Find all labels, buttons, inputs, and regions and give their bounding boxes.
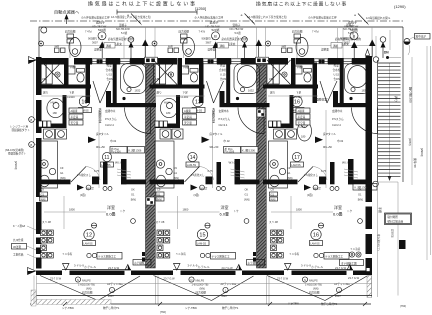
svg-text:23-7 G.W: 23-7 G.W	[222, 266, 234, 270]
svg-text:物干し竿付TS: 物干し竿付TS	[321, 302, 338, 306]
toilet	[190, 69, 198, 83]
svg-text:(N6-0.8)(見本限): (N6-0.8)(見本限)	[5, 148, 24, 152]
svg-text:換気扇はこれ以上下に設置しない事: 換気扇はこれ以上下に設置しない事	[88, 1, 197, 8]
svg-text:ミニ争有: ミニ争有	[176, 252, 187, 256]
svg-text:告DS: 告DS	[220, 77, 226, 81]
svg-text:W.I.C: W.I.C	[229, 161, 237, 165]
svg-text:[2303]: [2303]	[14, 161, 18, 170]
svg-text:3-ドル-9: 3-ドル-9	[74, 264, 84, 268]
svg-text:テラス囲施工エ: テラス囲施工エ	[212, 255, 231, 259]
svg-text:C9: C9	[174, 166, 178, 170]
svg-text:(NN): (NN)	[60, 176, 66, 180]
wall right of WC	[313, 63, 318, 104]
svg-text:[760]: [760]	[160, 310, 166, 314]
svg-text:C9: C9	[271, 188, 275, 192]
living divider wall	[150, 180, 185, 185]
svg-text:[NN]: [NN]	[40, 197, 45, 201]
svg-text:(3畳): (3畳)	[80, 193, 86, 197]
small box row	[39, 121, 51, 127]
small boxed labels	[69, 108, 83, 125]
svg-text:合水栓: 合水栓	[106, 68, 114, 72]
svg-text:2607: 2607	[222, 294, 228, 298]
svg-text:通絡: 通絡	[333, 44, 339, 48]
svg-text:四方枠棚: 四方枠棚	[179, 30, 190, 34]
svg-text:N: N	[191, 278, 193, 282]
unit 1 north window	[92, 59, 106, 64]
outer light box label	[415, 34, 431, 40]
svg-text:7 47d: 7 47d	[85, 30, 92, 34]
svg-text:スミ.08: スミ.08	[156, 220, 165, 224]
shaft top window	[256, 57, 269, 63]
wall stub left of entry	[106, 91, 111, 103]
svg-text:乗降748: 乗降748	[413, 158, 417, 168]
shower unit	[267, 60, 291, 85]
unit number circle 11	[102, 152, 111, 161]
svg-text:3607: 3607	[92, 41, 98, 45]
svg-text:玄関巾木: 玄関巾木	[332, 109, 343, 113]
svg-text:温格子: 温格子	[233, 23, 241, 27]
svg-text:1-60(1000-TB): 1-60(1000-TB)	[305, 283, 322, 287]
svg-text:四方枠棚: 四方枠棚	[65, 30, 76, 34]
unit 1 north wall	[38, 58, 67, 65]
small triangle above east wall	[365, 49, 369, 55]
washer boxes	[274, 129, 297, 139]
svg-text:G1: G1	[271, 192, 275, 196]
balcony brace	[154, 276, 254, 301]
svg-text:B: B	[101, 34, 104, 39]
unit number circle 15	[197, 229, 207, 239]
svg-text:遮椅子: 遮椅子	[210, 20, 219, 25]
svg-text:1.5兆化スし: 1.5兆化スし	[304, 173, 318, 177]
outer boundary light	[39, 27, 403, 58]
svg-text:[2303]: [2303]	[391, 229, 395, 238]
unit 3 north wall	[260, 58, 289, 65]
svg-text:APチャン49a: APチャン49a	[334, 282, 350, 286]
balcony brace	[40, 276, 140, 301]
unit 3 balcony	[267, 253, 367, 301]
svg-text:UB: UB	[269, 77, 273, 81]
wall below tub	[333, 103, 369, 107]
svg-text:C9: C9	[287, 166, 291, 170]
svg-text:suD: suD	[282, 44, 287, 48]
svg-text:1800: 1800	[69, 208, 75, 212]
svg-text:天空量: 天空量	[184, 121, 192, 125]
unit number circle 12	[84, 229, 94, 239]
svg-text:ホテ樋施工: ホテ樋施工	[134, 261, 147, 265]
svg-text:G1: G1	[245, 192, 249, 196]
bath drain circle	[282, 72, 287, 77]
stair center guide with arrow	[389, 63, 391, 176]
svg-text:1.5兆化スし: 1.5兆化スし	[191, 173, 205, 177]
svg-text:告DS: 告DS	[334, 77, 340, 81]
svg-text:[NN]ボ: [NN]ボ	[200, 187, 208, 191]
west wall	[36, 58, 42, 95]
divider door	[71, 167, 100, 183]
wall below bath/WC	[150, 85, 205, 89]
svg-text:12: 12	[86, 233, 92, 239]
svg-text:NO-7B-FrW: NO-7B-FrW	[230, 27, 244, 31]
svg-text:先混: 先混	[334, 64, 340, 68]
vent circle 1	[29, 117, 35, 123]
svg-text:シナ-TBW: シナ-TBW	[185, 306, 197, 310]
small boxed labels	[296, 108, 310, 125]
svg-text:シナ-TBW: シナ-TBW	[62, 306, 74, 310]
svg-text:踊り場1300: 踊り場1300	[409, 87, 414, 103]
svg-text:巾.02: 巾.02	[224, 139, 231, 143]
svg-text:LAM-5S: LAM-5S	[310, 242, 320, 246]
svg-text:CL900: CL900	[294, 95, 302, 99]
svg-text:3-ドル-9: 3-ドル-9	[301, 264, 311, 268]
wash basin	[47, 98, 64, 117]
svg-text:通絡: 通絡	[220, 44, 226, 48]
svg-text:必右気貴清足あり規約: 必右気貴清足あり規約	[335, 37, 361, 41]
svg-text:(1290): (1290)	[394, 4, 406, 9]
toilet	[304, 69, 312, 83]
svg-text:カ-テル-ル: カ-テル-ル	[84, 265, 97, 269]
svg-text:トケ: トケ	[347, 209, 353, 213]
wash basin	[298, 121, 312, 141]
wall below tub	[106, 103, 156, 107]
svg-text:B: B	[214, 34, 217, 39]
svg-text:16: 16	[294, 100, 300, 106]
svg-text:昇り: 昇り	[394, 96, 399, 102]
unit number circle 13	[193, 96, 203, 106]
svg-text:1.5兆化スし: 1.5兆化スし	[77, 173, 91, 177]
svg-text:小人伴長類似本品の工呼: 小人伴長類似本品の工呼	[308, 16, 337, 20]
svg-text:23-7 G.W: 23-7 G.W	[108, 266, 120, 270]
svg-text:Fu-1306: Fu-1306	[225, 149, 235, 153]
kitchen burners	[156, 160, 164, 168]
svg-text:LAM-5S: LAM-5S	[187, 163, 197, 167]
svg-text:四方枠棚: 四方枠棚	[196, 291, 207, 295]
living dims	[44, 196, 106, 229]
svg-text:6.0畳: 6.0畳	[106, 211, 116, 217]
living divider wall	[36, 180, 71, 185]
svg-text:6.75: 6.75	[94, 169, 100, 173]
svg-text:廻り: 廻り	[270, 91, 276, 95]
svg-text:3607: 3607	[206, 41, 212, 45]
svg-text:テラス囲施工エ: テラス囲施工エ	[98, 255, 117, 259]
svg-text:C9: C9	[41, 188, 45, 192]
unit 2 balcony	[154, 253, 270, 305]
svg-text:OK: OK	[358, 188, 362, 192]
svg-text:C9: C9	[60, 166, 64, 170]
svg-text:G1: G1	[174, 171, 178, 175]
svg-text:レンジフード用: レンジフード用	[10, 125, 29, 129]
unit number circle 17	[292, 152, 301, 161]
svg-text:小人伴長類似本品の工呼: 小人伴長類似本品の工呼	[81, 16, 110, 20]
svg-text:(NN): (NN)	[200, 287, 206, 291]
balcony mid line	[37, 283, 373, 285]
unit number circle 16	[311, 229, 321, 239]
balcony wall right end	[369, 264, 372, 275]
svg-text:スミ.08: スミ.08	[269, 220, 278, 224]
svg-text:Fu-1306: Fu-1306	[111, 149, 121, 153]
svg-text:先混: 先混	[220, 64, 226, 68]
svg-text:下足: 下足	[296, 91, 302, 95]
svg-text:手摺: 手摺	[378, 207, 383, 213]
svg-text:(3畳): (3畳)	[307, 193, 313, 197]
svg-text:CH=2.4: CH=2.4	[219, 123, 228, 127]
svg-text:P.Sスりん: P.Sスりん	[332, 117, 344, 121]
unit number circle 10	[79, 96, 89, 106]
svg-text:(NN): (NN)	[86, 287, 92, 291]
white corner hole	[367, 268, 370, 271]
svg-text:温格子: 温格子	[346, 23, 354, 27]
KJ label	[353, 184, 377, 191]
kitchen sink	[40, 175, 50, 187]
svg-text:14: 14	[190, 155, 196, 161]
svg-text:四方枠棚: 四方枠棚	[309, 291, 320, 295]
svg-text:通絡: 通絡	[106, 44, 112, 48]
svg-text:W.I.C: W.I.C	[342, 161, 350, 165]
svg-text:6.75: 6.75	[208, 169, 214, 173]
svg-text:OK: OK	[131, 188, 135, 192]
svg-text:17: 17	[294, 155, 300, 161]
bath/WC partition wall	[178, 58, 183, 85]
svg-text:[NN]: [NN]	[244, 197, 249, 201]
svg-text:(NN): (NN)	[287, 176, 293, 180]
svg-text:巾.02: 巾.02	[110, 139, 117, 143]
svg-text:CH=2.4: CH=2.4	[105, 123, 114, 127]
svg-text:排水溝200(フ): 排水溝200(フ)	[377, 234, 381, 251]
svg-text:巾.02: 巾.02	[337, 139, 344, 143]
svg-text:6.0畳: 6.0畳	[220, 211, 230, 217]
WC basin box	[181, 66, 189, 74]
shower unit	[40, 60, 64, 85]
svg-text:520遮: 520遮	[98, 27, 106, 32]
svg-text:(3畳): (3畳)	[194, 193, 200, 197]
KJ label	[110, 147, 145, 154]
svg-text:先混: 先混	[107, 64, 113, 68]
kitchen counter	[269, 141, 288, 188]
svg-text:HVド: HVド	[300, 125, 307, 129]
svg-text:suD: suD	[55, 44, 60, 48]
svg-text:遮椅子: 遮椅子	[96, 20, 105, 25]
svg-text:九州仕様: 九州仕様	[13, 238, 24, 242]
svg-text:180: 180	[53, 111, 58, 115]
svg-text:洋室: 洋室	[221, 204, 229, 210]
svg-text:suD: suD	[168, 44, 173, 48]
unit 3 north window	[314, 59, 328, 64]
svg-text:G1: G1	[60, 171, 64, 175]
svg-text:NNLPS: NNLPS	[196, 279, 205, 283]
svg-text:APチャン49a: APチャン49a	[221, 282, 237, 286]
washroom south wall	[269, 124, 294, 129]
small box row	[269, 121, 281, 127]
svg-text:2607: 2607	[108, 294, 114, 298]
wall below tub	[220, 103, 270, 107]
balcony wall	[36, 271, 62, 276]
svg-text:NNLPS: NNLPS	[82, 279, 91, 283]
party wall / pipe shaft 1	[146, 65, 156, 268]
bath drain circle	[55, 72, 60, 77]
svg-text:温格子: 温格子	[119, 23, 127, 27]
svg-text:A棟東: A棟東	[298, 109, 305, 113]
svg-text:洋室: 洋室	[334, 204, 342, 210]
svg-text:G1: G1	[287, 171, 291, 175]
svg-text:G1: G1	[157, 192, 161, 196]
outdoor faucet symbol	[404, 39, 410, 45]
unit number circle 16	[292, 96, 302, 106]
kitchen sink	[156, 175, 166, 187]
svg-text:NNLPS: NNLPS	[309, 279, 318, 283]
svg-text:APチャン49a: APチャン49a	[107, 282, 123, 286]
small boxed labels	[183, 108, 197, 125]
svg-text:(760): (760)	[400, 304, 406, 308]
svg-text:180: 180	[166, 111, 171, 115]
svg-text:6.0畳: 6.0畳	[333, 211, 343, 217]
outlet icon cluster	[271, 230, 284, 258]
svg-text:N: N	[304, 278, 306, 282]
svg-text:9FL+50: 9FL+50	[210, 145, 219, 149]
svg-text:LAM-5S: LAM-5S	[83, 242, 93, 246]
toilet	[77, 69, 85, 83]
svg-text:DN: DN	[384, 51, 389, 55]
svg-text:180: 180	[301, 135, 306, 139]
svg-text:A棟東: A棟東	[184, 109, 191, 113]
svg-text:1632: 1632	[362, 89, 368, 93]
unit 1 balcony	[40, 253, 158, 305]
svg-text:1/1.5奥様扉これ以下禁き使用と知: 1/1.5奥様扉これ以下禁き使用と知	[247, 15, 287, 19]
svg-text:G1: G1	[358, 192, 362, 196]
svg-text:床:Pタイル: 床:Pタイル	[96, 132, 109, 136]
svg-text:[NN]ボ: [NN]ボ	[313, 187, 321, 191]
property dash-dot line	[30, 20, 403, 22]
unit 2 north wall	[149, 58, 178, 65]
svg-text:平定員: 平定員	[184, 115, 192, 119]
svg-text:換気扇はこれ以上下に設置しない事: 換気扇はこれ以上下に設置しない事	[256, 1, 347, 8]
kitchen burners	[270, 160, 278, 168]
unit 2 top annotations	[152, 13, 262, 58]
svg-text:520遮: 520遮	[212, 27, 220, 32]
svg-text:K.J棚 1306: K.J棚 1306	[242, 149, 255, 153]
kitchen burners	[40, 160, 48, 168]
svg-text:900廻り下: 900廻り下	[88, 37, 101, 41]
svg-text:四方枠棚: 四方枠棚	[292, 30, 303, 34]
svg-text:C9: C9	[157, 188, 161, 192]
svg-text:OK: OK	[245, 188, 249, 192]
svg-text:1632: 1632	[135, 89, 141, 93]
arrow up	[64, 14, 68, 24]
svg-text:(1850): (1850)	[408, 138, 412, 146]
washroom south wall	[42, 124, 67, 129]
svg-text:取付場所: 取付場所	[388, 215, 399, 219]
svg-text:UB: UB	[42, 77, 46, 81]
svg-text:天空量: 天空量	[298, 121, 306, 125]
svg-text:天空量: 天空量	[71, 121, 79, 125]
wall stub left of entry	[333, 91, 338, 103]
svg-text:1800: 1800	[296, 208, 302, 212]
svg-text:U.15: U.15	[220, 73, 226, 77]
svg-text:1/4海島輸送れの開ル: 1/4海島輸送れの開ル	[366, 16, 391, 20]
entry door	[352, 108, 378, 134]
unit 1 top annotations	[39, 13, 149, 58]
svg-text:スミ.08: スミ.08	[42, 220, 51, 224]
bath/WC partition wall	[64, 58, 69, 85]
svg-text:タテ樋施工図: タテ樋施工図	[341, 261, 357, 265]
svg-text:床:Pタイル: 床:Pタイル	[210, 132, 223, 136]
svg-text:5.0遮: 5.0遮	[235, 31, 242, 35]
washroom east wall	[176, 95, 180, 124]
wall corner block	[36, 57, 42, 65]
vent circle 2	[29, 142, 35, 148]
svg-text:ミニ争有: ミニ争有	[289, 252, 300, 256]
svg-text:NO-7B-FrW: NO-7B-FrW	[116, 27, 130, 31]
svg-text:1632: 1632	[248, 89, 254, 93]
WC basin box	[295, 66, 303, 74]
outlet icon cluster	[41, 230, 54, 258]
svg-text:温整面: 温整面	[321, 48, 329, 52]
svg-text:[NN]: [NN]	[358, 197, 363, 201]
svg-text:5.0遮: 5.0遮	[348, 31, 355, 35]
svg-text:G1: G1	[131, 192, 135, 196]
wall right of WC	[86, 63, 91, 104]
washroom south wall	[155, 124, 180, 129]
svg-text:6.75: 6.75	[321, 169, 327, 173]
divider door	[298, 167, 327, 183]
svg-text:玄関巾木: 玄関巾木	[219, 109, 230, 113]
wall left of tub	[113, 58, 117, 107]
svg-text:必右気貴清足あり規約: 必右気貴清足あり規約	[108, 37, 134, 41]
balcony outer line	[33, 295, 372, 297]
outlet icon cluster	[157, 230, 170, 258]
svg-text:ドナTBW: ドナTBW	[288, 302, 300, 306]
svg-text:カ-テル-ル: カ-テル-ル	[311, 265, 324, 269]
svg-text:トケ: トケ	[234, 209, 240, 213]
svg-text:10: 10	[81, 100, 87, 106]
svg-text:N: N	[77, 278, 79, 282]
svg-text:[NN]ボ: [NN]ボ	[86, 187, 94, 191]
svg-text:トケ: トケ	[120, 209, 126, 213]
svg-text:[1250]: [1250]	[195, 6, 206, 11]
wall left of tub	[226, 58, 230, 107]
bathtub	[121, 64, 147, 94]
svg-text:四方枠棚: 四方枠棚	[82, 291, 93, 295]
svg-text:23-7 G.W: 23-7 G.W	[277, 277, 289, 281]
svg-text:洋室: 洋室	[107, 204, 115, 210]
stair treads	[378, 63, 401, 177]
wall stub left of entry	[220, 91, 225, 103]
svg-text:A棟東: A棟東	[71, 109, 78, 113]
svg-text:23-7 G.W: 23-7 G.W	[348, 276, 360, 280]
svg-text:小人伴長類似本品の工呼: 小人伴長類似本品の工呼	[195, 16, 224, 20]
shower unit	[154, 60, 178, 85]
WC basin box	[68, 66, 76, 74]
small box row	[155, 121, 167, 127]
svg-text:NO-7B-FrW: NO-7B-FrW	[343, 27, 357, 31]
living dims	[271, 196, 333, 229]
svg-text:合水栓: 合水栓	[333, 68, 341, 72]
svg-text:CL900: CL900	[67, 95, 75, 99]
entry door	[125, 108, 151, 134]
kitchen counter	[155, 141, 174, 188]
divider door	[185, 167, 214, 183]
svg-text:1/1.5奥様扉これ以下禁き使用と知: 1/1.5奥様扉これ以下禁き使用と知	[111, 15, 151, 19]
svg-text:廻り: 廻り	[43, 91, 49, 95]
party wall / pipe shaft 2	[257, 65, 267, 268]
svg-text:温整面: 温整面	[94, 48, 102, 52]
svg-text:23-7 G.W: 23-7 G.W	[50, 277, 62, 281]
svg-text:CL900: CL900	[181, 95, 189, 99]
washer boxes	[44, 129, 67, 139]
section marker bottom	[28, 268, 36, 275]
svg-text:下足: 下足	[69, 91, 75, 95]
svg-text:CH=2.4: CH=2.4	[332, 123, 341, 127]
svg-text:1-60(1000-TB): 1-60(1000-TB)	[192, 283, 209, 287]
unit 2 north window	[203, 59, 217, 64]
wall left of tub	[340, 58, 344, 107]
